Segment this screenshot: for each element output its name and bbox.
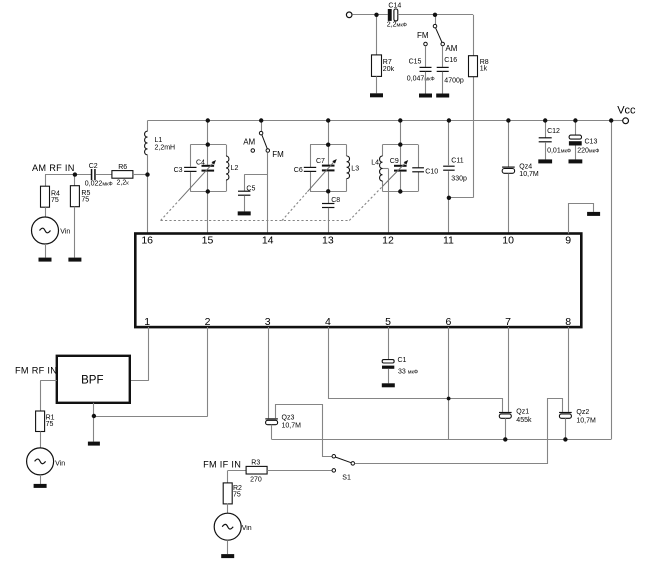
arrow shaft on C9: [383, 162, 406, 186]
svg-text:2,2к: 2,2к: [117, 179, 130, 186]
label C5: [246, 185, 255, 192]
node tank3 bottom junction dot: [398, 189, 402, 193]
label C7: [316, 158, 325, 165]
svg-text:R3: R3: [251, 460, 260, 467]
label C16: [444, 57, 464, 84]
label Qz2: [576, 409, 596, 424]
svg-text:2,2mH: 2,2mH: [155, 145, 176, 152]
node BPF ground junction dot: [92, 414, 96, 418]
wire pin13 from bus: [328, 121, 330, 165]
wire C11 to R8 column: [449, 197, 473, 199]
svg-text:L3: L3: [351, 165, 359, 172]
resistor R1: [36, 411, 45, 432]
svg-text:75: 75: [233, 492, 241, 499]
label C2: [85, 163, 113, 188]
resistor R6: [112, 171, 133, 179]
capacitor C9 (variable): [394, 165, 407, 172]
node Vcc branch dot: [609, 118, 613, 122]
svg-text:S1: S1: [342, 474, 351, 481]
svg-text:1k: 1k: [480, 66, 488, 73]
wire R3 to S1 open contact: [267, 470, 332, 472]
wire Vin to ground: [45, 244, 47, 258]
resistor R2: [223, 483, 232, 504]
wire tank3 bottom: [383, 191, 419, 193]
resistor R8: [469, 56, 478, 77]
inductor L1: [145, 131, 148, 155]
ground under BPF: [88, 442, 100, 446]
wire R8 column: [473, 15, 475, 198]
svg-text:0,01мкФ: 0,01мкФ: [547, 147, 571, 154]
svg-text:0,022мкФ: 0,022мкФ: [85, 180, 113, 187]
label Qz4: [519, 163, 539, 178]
node tank3 top junction dot: [398, 142, 402, 146]
wire tank3 top: [383, 144, 419, 146]
label FM (switch top): [417, 31, 429, 40]
arrow on C7: [332, 159, 337, 164]
svg-text:Qz3: Qz3: [282, 415, 295, 422]
wire tank1 top: [190, 144, 226, 146]
svg-text:R6: R6: [118, 164, 127, 171]
svg-text:FM: FM: [272, 150, 284, 159]
switch SA1a AM contact: [441, 42, 445, 46]
svg-text:AM RF IN: AM RF IN: [32, 163, 75, 173]
wire tank2 to C8: [328, 171, 330, 203]
label AM RF IN: [32, 163, 75, 173]
label AM (switch mid): [243, 137, 255, 146]
wire IC pin 6 to crystal rail: [448, 327, 450, 439]
wire C2 to R6: [96, 174, 112, 176]
label C6: [294, 167, 303, 174]
label L3: [351, 165, 359, 172]
ground under AM Vin: [39, 258, 52, 262]
svg-text:4700p: 4700p: [444, 77, 464, 84]
wire R6 to pin16 node: [133, 174, 148, 176]
switch S1 common contact: [332, 455, 336, 459]
arrow shaft on C4: [179, 162, 213, 200]
node bus/switch dot: [259, 118, 263, 122]
switch SA1a pivot contact: [433, 24, 437, 28]
label R1: [46, 414, 55, 428]
capacitor C12: [539, 137, 552, 142]
ground under FM RF Vin: [34, 484, 47, 488]
switch SA1b FM contact: [266, 149, 270, 153]
svg-text:BPF: BPF: [81, 374, 103, 386]
svg-text:6: 6: [445, 316, 451, 328]
wire S1 to Qz2 left lead: [355, 399, 563, 464]
svg-text:1: 1: [144, 316, 150, 328]
svg-text:C1: C1: [398, 357, 407, 364]
inductor L3: [347, 156, 350, 179]
svg-text:2,2мкФ: 2,2мкФ: [387, 22, 407, 29]
wire R4 to Vin source: [45, 207, 47, 217]
wire R5 to ground: [74, 207, 76, 258]
svg-text:C11: C11: [451, 158, 463, 165]
capacitor C16: [437, 67, 449, 72]
wire IC pin 9 to ground: [569, 204, 594, 234]
inductor L2: [226, 156, 229, 180]
capacitor C15: [420, 67, 432, 72]
svg-text:L1: L1: [155, 137, 163, 144]
capacitor C5: [238, 191, 250, 196]
node tank2 top junction dot: [326, 143, 330, 147]
node R7 junction dot: [374, 13, 378, 17]
wire C11 to IC pin 11: [448, 171, 450, 233]
wire C14 to switch node: [398, 14, 473, 16]
label R6: [117, 164, 130, 187]
node pin4/pin6 crossing dot: [447, 397, 451, 401]
node bus/Qz4 dot: [506, 118, 510, 122]
label Qz1: [516, 409, 532, 424]
label C3: [174, 167, 183, 174]
wire tank3 left branch: [382, 145, 384, 192]
switch SA1b AM contact: [251, 149, 255, 153]
svg-text:AM: AM: [243, 137, 255, 146]
gang dashed horizontal line: [161, 220, 350, 222]
arrow shaft on C7: [308, 161, 335, 191]
wire R2 branch: [227, 470, 229, 483]
wire tank2 left branch: [310, 145, 312, 192]
label R3: [250, 460, 262, 484]
wire Vin to ground: [40, 475, 42, 484]
ground at pin 9: [587, 212, 600, 216]
label L2: [231, 165, 239, 172]
svg-text:C4: C4: [196, 159, 205, 166]
wire IC pin 2 to BPF ground node: [94, 327, 208, 417]
svg-text:Vin: Vin: [242, 525, 252, 532]
wire Vin to ground: [227, 540, 229, 554]
wire Qz1 bottom lead: [505, 418, 507, 439]
label L4: [371, 160, 379, 167]
switch SA1a FM contact: [424, 42, 428, 46]
wire Qz3 right lead loop to S1: [276, 405, 332, 457]
label S1: [342, 474, 351, 481]
svg-text:75: 75: [81, 196, 89, 203]
svg-text:4: 4: [325, 316, 331, 328]
label R4: [51, 190, 60, 204]
wire FM contact to C15: [425, 46, 427, 67]
ground under C15: [419, 94, 432, 98]
wire Vcc column down right side: [611, 121, 613, 440]
wire C5 to ground: [244, 196, 246, 212]
svg-text:3: 3: [265, 316, 271, 328]
label Vin (AM): [60, 228, 70, 235]
wire R1 branch: [40, 381, 42, 411]
wire C9 lower stub: [400, 172, 402, 192]
svg-text:330p: 330p: [451, 176, 467, 183]
wire C13 to ground: [575, 146, 577, 160]
node bus/tank3 dot: [398, 118, 402, 122]
gang dashed diagonal to C9: [349, 186, 382, 220]
label R5: [81, 190, 90, 204]
svg-text:Vcc: Vcc: [617, 105, 636, 117]
capacitor C1 (electrolytic): [382, 360, 394, 369]
wire IC pin 7 to Qz1: [508, 327, 510, 412]
wire L1 to pin 16 node: [147, 155, 149, 234]
capacitor C4 (variable): [202, 165, 215, 172]
resistor R4: [41, 186, 50, 207]
wire R2 to Vin: [227, 503, 229, 513]
crystal Qz4: [502, 167, 515, 174]
wire R4 branch: [45, 175, 47, 187]
capacitor C2: [91, 169, 96, 180]
node bus/tank2 dot: [326, 118, 330, 122]
crystal Qz2: [559, 412, 572, 418]
label R8: [480, 59, 489, 73]
node bus/C13 dot: [573, 118, 577, 122]
svg-text:75: 75: [51, 197, 59, 204]
capacitor C6: [304, 167, 316, 172]
svg-text:L2: L2: [231, 165, 239, 172]
crystal Qz3: [265, 418, 278, 424]
svg-text:16: 16: [141, 235, 153, 247]
terminal FM IF input (top left): [346, 12, 352, 18]
label C1: [398, 357, 419, 375]
svg-text:33 мкФ: 33 мкФ: [398, 368, 418, 375]
label L1 value: [155, 137, 176, 151]
svg-text:11: 11: [443, 235, 454, 247]
wire R7 to ground: [376, 76, 378, 93]
wire Qz3 bottom to crystal rail: [272, 425, 612, 440]
wire BPF bottom lead: [93, 403, 95, 442]
wire AM contact to C16: [442, 46, 444, 67]
BPF block: [57, 356, 130, 403]
wire C15 to ground: [425, 72, 427, 94]
svg-text:FM RF IN: FM RF IN: [15, 365, 57, 375]
wire C5 link: [244, 175, 268, 191]
ground under C13: [569, 159, 583, 163]
svg-text:C14: C14: [388, 2, 401, 9]
label C8: [331, 197, 340, 204]
wire tank1 left branch: [190, 145, 192, 192]
label C4: [196, 159, 205, 166]
svg-text:C15: C15: [409, 59, 422, 66]
wire IC pin 8 to Qz2: [568, 327, 570, 412]
node bus/C12 dot: [543, 118, 547, 122]
wire bus left corner to L1: [147, 121, 149, 132]
source Vin (AM): [32, 217, 59, 244]
switch SA1a lever: [436, 28, 442, 42]
wire C1 to ground: [388, 369, 390, 384]
wire bus to switch pivot: [261, 121, 263, 132]
svg-text:AM: AM: [445, 44, 457, 53]
resistor R7: [372, 55, 382, 77]
wire C12 branch: [545, 121, 547, 138]
svg-text:75: 75: [46, 421, 54, 428]
wire Qz4 to IC pin 10: [508, 174, 510, 234]
node Qz2/rail junction dot: [563, 437, 567, 441]
svg-text:C6: C6: [294, 167, 303, 174]
source Vin (FM IF): [214, 513, 241, 540]
svg-text:13: 13: [322, 235, 334, 247]
svg-text:C8: C8: [331, 197, 340, 204]
wire terminal to C14: [352, 14, 388, 16]
terminal Vcc: [623, 118, 629, 124]
ground under R5: [68, 258, 81, 262]
label C14: [387, 2, 407, 28]
resistor R5: [70, 186, 79, 207]
svg-text:L4: L4: [371, 160, 379, 167]
svg-text:C2: C2: [89, 163, 98, 170]
capacitor C7 (variable): [322, 165, 335, 172]
wire pin12 from bus: [400, 121, 402, 166]
wire pin11 from bus: [448, 121, 450, 166]
node switch top dot: [433, 13, 437, 17]
label C10: [425, 168, 438, 175]
gang dashed diagonal to C7: [282, 192, 308, 221]
svg-text:12: 12: [382, 235, 394, 247]
wire top supply bus: [148, 120, 623, 122]
ground under C12: [538, 159, 552, 163]
label R2: [233, 485, 242, 499]
label Qz3: [282, 415, 302, 430]
label C15: [407, 59, 435, 83]
op-amp IC U1 (16-pin): [135, 234, 581, 329]
capacitor C14 (electrolytic): [388, 9, 398, 21]
svg-text:7: 7: [505, 316, 511, 328]
label C12: [547, 128, 571, 154]
label FM RF IN: [15, 365, 57, 375]
wire switch stub: [435, 15, 437, 24]
label Vcc: [617, 105, 636, 117]
wire tank2 top: [310, 144, 347, 146]
wire bus to Vcc terminal: [611, 120, 622, 122]
wire IC pin 5 to C1: [388, 327, 390, 360]
wire IC pin 4 to Qz1 left lead: [329, 327, 503, 412]
node tank1 top junction dot: [206, 142, 210, 146]
svg-text:C13: C13: [585, 138, 598, 145]
svg-text:10: 10: [502, 235, 514, 247]
switch SA1b lever: [262, 135, 267, 149]
label C9: [390, 158, 399, 165]
svg-text:C12: C12: [547, 128, 560, 135]
label C11: [451, 158, 467, 183]
ground under FM IF Vin: [221, 554, 234, 558]
ground under R7: [370, 93, 383, 97]
label R7: [383, 59, 395, 73]
capacitor C11: [443, 166, 455, 171]
gang dashed diagonal to C4: [161, 200, 180, 220]
node tank2 bottom junction dot: [326, 189, 330, 193]
svg-text:C7: C7: [316, 158, 325, 165]
svg-text:FM: FM: [417, 31, 429, 40]
node Qz1/rail junction dot: [503, 437, 507, 441]
resistor R3: [246, 466, 267, 474]
switch S1 output contact: [351, 462, 355, 466]
wire R7 branch: [376, 15, 378, 55]
svg-text:FM IF IN: FM IF IN: [203, 459, 241, 469]
svg-text:220мкФ: 220мкФ: [577, 148, 599, 155]
svg-text:C10: C10: [425, 168, 438, 175]
node bus/tank1 dot: [206, 118, 210, 122]
svg-text:C16: C16: [444, 57, 457, 64]
svg-text:10,7M: 10,7M: [576, 417, 596, 424]
wire IC pin 3 to Qz3: [268, 327, 270, 418]
capacitor C8: [322, 203, 334, 208]
svg-text:Qz1: Qz1: [516, 409, 529, 416]
wire Qz2 bottom lead: [565, 418, 567, 439]
wire L4 tap to IC pin 12: [383, 168, 389, 233]
svg-text:8: 8: [565, 316, 571, 328]
label FM (switch mid): [272, 150, 284, 159]
ground under C1: [382, 383, 395, 387]
wire tank2 bottom: [310, 191, 347, 193]
wire C8 to IC pin 13: [328, 208, 330, 234]
node R6/L1/pin16 junction dot: [145, 172, 149, 176]
label Vin (FM RF): [55, 460, 65, 467]
arrow on C4: [212, 160, 217, 165]
svg-text:9: 9: [565, 235, 571, 247]
node tank1 bottom junction dot: [206, 189, 210, 193]
svg-text:10,7M: 10,7M: [519, 171, 539, 178]
wire FM contact to IC pin 14: [267, 152, 269, 233]
switch SA1b pivot contact: [259, 131, 263, 135]
svg-text:C9: C9: [390, 158, 399, 165]
capacitor C10: [412, 167, 424, 172]
label FM IF IN: [203, 459, 241, 469]
inductor L4: [380, 156, 383, 181]
label AM (switch top): [445, 44, 457, 53]
wire C13 branch: [575, 121, 577, 136]
wire R5 branch: [74, 175, 76, 186]
svg-text:15: 15: [202, 235, 214, 247]
svg-text:5: 5: [385, 316, 391, 328]
svg-text:0,047мкФ: 0,047мкФ: [407, 75, 435, 82]
svg-text:C3: C3: [174, 167, 183, 174]
wire C16 to ground: [442, 72, 444, 94]
node AM RF IN junction dot: [73, 172, 77, 176]
wire C12 to ground: [545, 142, 547, 159]
switch S1 FM-IF contact (open): [332, 469, 336, 473]
svg-text:10,7M: 10,7M: [282, 423, 302, 430]
svg-text:14: 14: [262, 235, 274, 247]
ground under C16: [436, 94, 449, 98]
ground under C5: [238, 211, 251, 215]
source Vin (FM RF): [27, 448, 54, 475]
wire FM RF IN input: [40, 380, 57, 382]
svg-text:455k: 455k: [516, 417, 532, 424]
crystal Qz1: [499, 412, 512, 418]
svg-text:Vin: Vin: [55, 460, 65, 467]
wire AM RF IN input: [45, 174, 91, 176]
node bus/C11 dot: [447, 118, 451, 122]
label C13: [577, 138, 599, 154]
switch S1 lever: [336, 457, 351, 463]
svg-text:2: 2: [205, 316, 211, 328]
svg-text:20k: 20k: [383, 66, 395, 73]
wire tank1 bottom: [190, 191, 226, 193]
wire tank1 right branch: [226, 145, 228, 192]
svg-text:Qz4: Qz4: [519, 163, 532, 170]
arrow on C9: [404, 160, 409, 165]
wire pin10 from bus: [508, 121, 510, 167]
svg-text:Vin: Vin: [60, 228, 70, 235]
node C11/R8 junction dot: [447, 196, 451, 200]
wire C4 to IC pin 15: [207, 172, 209, 234]
wire pin15 from bus: [207, 121, 209, 165]
wire tank3 right branch: [418, 145, 420, 192]
svg-text:C5: C5: [246, 185, 255, 192]
wire R1 to Vin: [40, 432, 42, 448]
capacitor C13 (electrolytic): [569, 135, 582, 145]
label Vin (FM IF): [242, 525, 252, 532]
wire IC pin 1 to BPF: [130, 327, 149, 381]
svg-text:Qz2: Qz2: [576, 409, 589, 416]
wire FM IF IN to R3: [228, 470, 246, 472]
svg-text:270: 270: [250, 477, 262, 484]
wire tank2 right branch: [346, 145, 348, 192]
capacitor C3: [184, 167, 196, 172]
